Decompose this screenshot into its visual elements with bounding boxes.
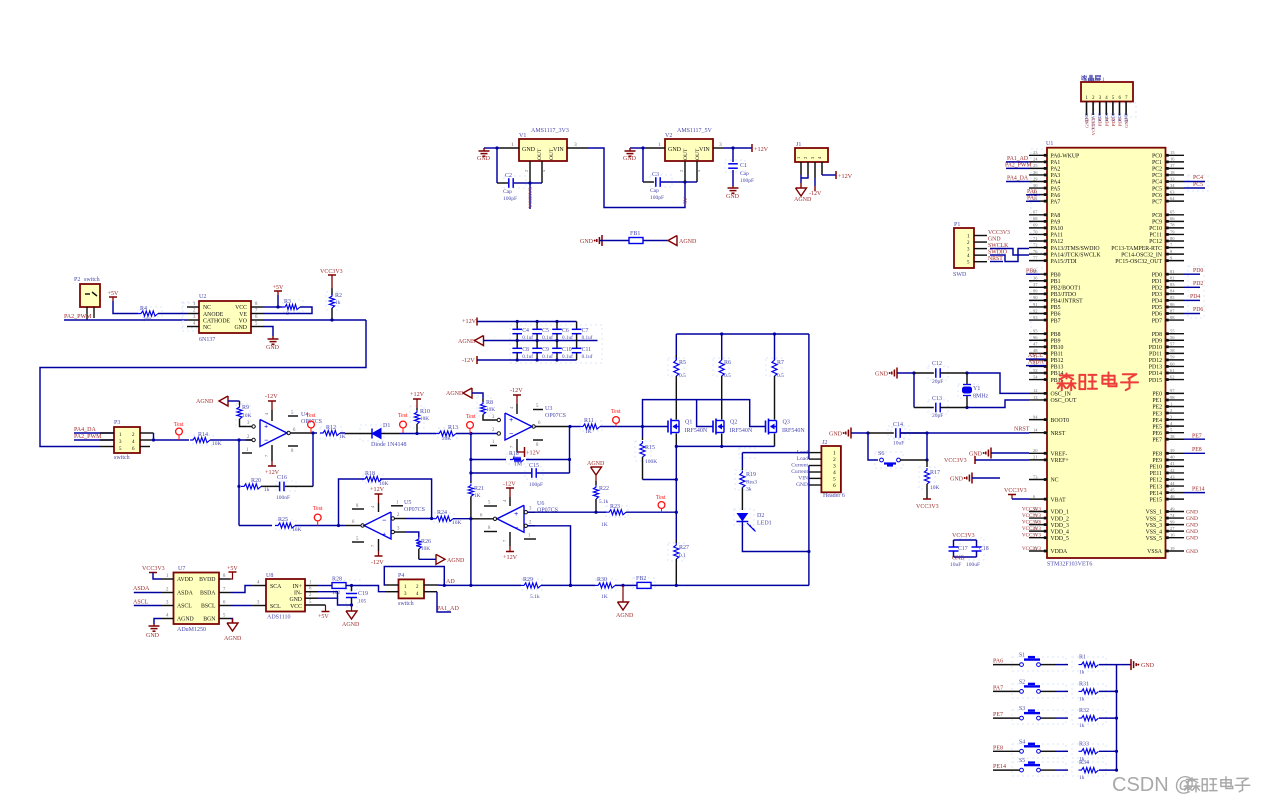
P1 pin 1 stub — [974, 235, 987, 237]
U1 left pin PA7 — [1029, 200, 1047, 202]
svg-text:PA7: PA7 — [993, 685, 1003, 691]
U1 pin VDD_1 — [1029, 511, 1047, 513]
svg-text:C16: C16 — [277, 475, 287, 481]
svg-text:18: 18 — [1170, 170, 1175, 175]
svg-text:PA6: PA6 — [993, 659, 1003, 665]
U3 pin3 stub — [495, 419, 497, 421]
svg-text:2: 2 — [524, 170, 529, 172]
svg-text:95: 95 — [1033, 329, 1038, 334]
svg-text:Y1: Y1 — [973, 386, 980, 392]
digital isolator U7 ADuM1250 — [174, 573, 220, 625]
svg-text:56: 56 — [1170, 335, 1175, 340]
svg-text:PA2_PWM: PA2_PWM — [74, 434, 102, 440]
svg-text:AMS1117_5V: AMS1117_5V — [677, 128, 713, 134]
svg-text:GND: GND — [1085, 117, 1090, 128]
analog ground AGND below R30 — [622, 585, 624, 602]
svg-text:13: 13 — [1033, 395, 1038, 400]
svg-text:60: 60 — [1170, 361, 1175, 366]
svg-text:PE7: PE7 — [1152, 437, 1162, 443]
svg-text:2: 2 — [833, 457, 836, 463]
wire R3 to VE pin 7 — [263, 307, 312, 314]
svg-text:AGND: AGND — [616, 613, 634, 619]
svg-text:PA1_AD: PA1_AD — [1007, 156, 1028, 162]
power -12V at cap bank — [476, 356, 478, 364]
microcontroller U1 STM32F103VET6 — [1047, 148, 1166, 558]
svg-text:5.1k: 5.1k — [530, 594, 540, 600]
svg-text:PE14: PE14 — [1192, 487, 1205, 493]
svg-text:P3: P3 — [114, 420, 120, 426]
op-amp U3 OP07CS — [505, 413, 532, 440]
svg-text:Current: Current — [791, 469, 808, 475]
ferrite bead FB2 — [637, 582, 651, 588]
P4 right stubs — [424, 584, 437, 586]
svg-text:GND: GND — [796, 482, 808, 488]
svg-text:PD4: PD4 — [1190, 294, 1200, 300]
svg-text:PB8: PB8 — [1051, 332, 1061, 338]
selection marks — [193, 435, 213, 445]
svg-text:89: 89 — [1033, 289, 1038, 294]
U1 right pin PE11 — [1166, 472, 1185, 474]
svg-text:PE11: PE11 — [1150, 471, 1162, 477]
svg-text:OSC_IN: OSC_IN — [1051, 392, 1072, 398]
svg-text:CATHODE: CATHODE — [203, 319, 231, 325]
resistor R9 10K — [239, 401, 241, 405]
U5 pin3 wire to R26 — [405, 532, 419, 537]
wire source rail — [676, 445, 774, 447]
svg-text:R18: R18 — [365, 471, 375, 477]
U4 pin3 noninverting stub — [246, 426, 252, 428]
svg-text:R14: R14 — [198, 432, 208, 438]
capacitor C14 10uF — [868, 432, 894, 434]
U1 left pin PB13 — [1029, 365, 1047, 367]
svg-text:R23: R23 — [610, 504, 620, 510]
test point before R14 — [176, 428, 183, 435]
wire U7 BSCL to U8 SCL — [231, 605, 253, 607]
svg-text:VCC3V3: VCC3V3 — [1022, 521, 1041, 526]
svg-text:U6: U6 — [537, 501, 544, 507]
svg-text:PA14/JTCK/SWCLK: PA14/JTCK/SWCLK — [1051, 252, 1102, 258]
push button S5 — [993, 769, 1020, 771]
U1 pin VSS_5 — [1166, 537, 1185, 539]
svg-text:AGND: AGND — [587, 461, 605, 467]
wire P4 pin4 to PA1_AD label — [437, 592, 451, 612]
U7 pin4 to GND — [154, 619, 162, 625]
wire common column to GND — [1116, 665, 1118, 771]
svg-text:GND: GND — [146, 633, 160, 639]
wire crystal to OSC_OUT — [967, 400, 1029, 408]
svg-text:R3: R3 — [284, 299, 291, 305]
U1 left pin PB6 — [1029, 313, 1047, 315]
svg-text:P4: P4 — [398, 573, 404, 579]
svg-text:PA9: PA9 — [1051, 220, 1061, 226]
capacitor C12 20pF — [914, 372, 934, 374]
svg-text:PD13: PD13 — [1149, 365, 1162, 371]
wire main node to R25 — [239, 525, 272, 527]
resistor R26 10K — [416, 537, 421, 549]
svg-text:GND: GND — [1186, 529, 1198, 535]
svg-text:PD2: PD2 — [1193, 281, 1203, 287]
connector J2 Header 6 — [821, 446, 841, 492]
svg-text:-12V: -12V — [462, 357, 475, 364]
svg-text:PB6: PB6 — [1051, 312, 1061, 318]
svg-text:10uF: 10uF — [893, 441, 904, 447]
svg-text:+12V: +12V — [503, 554, 518, 561]
svg-text:PB4/JNTRST: PB4/JNTRST — [1051, 299, 1084, 305]
J1 pins 1,2 wire to AGND — [800, 175, 802, 183]
wire R28 to P4 pin3 — [352, 586, 386, 592]
transistor Q1 IRF540N — [667, 421, 669, 433]
power -12V at U5 bottom — [378, 539, 380, 551]
svg-text:J2: J2 — [822, 440, 827, 446]
svg-text:1k: 1k — [1079, 670, 1085, 676]
U1 left pin PB14 — [1029, 372, 1047, 374]
svg-text:R28: R28 — [332, 577, 342, 583]
U3 output pin6 — [532, 425, 535, 428]
svg-text:R8: R8 — [486, 400, 493, 406]
V2 AMS1117-5V regulator — [665, 139, 713, 161]
resistor R7 0.5 — [774, 334, 776, 360]
J1 pin4 wire to +12V — [822, 174, 836, 176]
U1 pin VSS_4 — [1166, 530, 1185, 532]
svg-text:54: 54 — [1033, 374, 1038, 379]
wire NRST net — [900, 432, 1029, 434]
svg-text:OUT: OUT — [549, 148, 555, 160]
U1 left pin PB12 — [1029, 359, 1047, 361]
svg-text:0.1uf: 0.1uf — [542, 334, 553, 341]
svg-text:OP07CS: OP07CS — [301, 419, 322, 425]
svg-text:PE3: PE3 — [1152, 411, 1162, 417]
svg-text:BSCL: BSCL — [201, 604, 216, 610]
U1 left pin PA4 — [1029, 181, 1047, 183]
svg-text:R5: R5 — [679, 360, 686, 366]
capacitor C1 100pF — [732, 148, 734, 162]
wire +12V rail down to J2 — [808, 334, 810, 453]
resistor R17 10K pullup to VCC3V3 — [926, 460, 928, 467]
svg-text:100uF: 100uF — [966, 562, 980, 568]
U1 pin VREF+ — [1029, 459, 1047, 461]
svg-text:R33: R33 — [1079, 741, 1089, 747]
svg-text:VCC3V3: VCC3V3 — [952, 533, 975, 539]
svg-text:PD9: PD9 — [1152, 338, 1162, 344]
power +12V at U6 bottom — [509, 532, 511, 546]
svg-text:34: 34 — [1170, 183, 1175, 188]
svg-text:10K: 10K — [292, 527, 302, 533]
U4 pin2 inverting stub — [246, 439, 252, 441]
U5 pin5 stub — [352, 541, 364, 543]
diode D1 1N4148 — [345, 433, 372, 435]
J1 pin stubs — [800, 162, 802, 175]
U1 pin VDDA — [1029, 550, 1047, 552]
svg-text:VO: VO — [239, 319, 247, 325]
U1 right pin PD9 — [1166, 339, 1185, 341]
svg-text:49: 49 — [1170, 506, 1175, 511]
wire V1 VIN to +5V rail — [588, 148, 685, 208]
svg-text:1: 1 — [511, 142, 514, 148]
svg-text:PB5: PB5 — [1051, 305, 1061, 311]
svg-text:ASDA: ASDA — [1028, 360, 1045, 366]
svg-text:1K: 1K — [601, 522, 608, 528]
svg-text:1K: 1K — [585, 429, 592, 435]
U1 right pin PE5 — [1166, 425, 1185, 427]
U3 pin1 stub — [490, 445, 497, 447]
svg-text:87: 87 — [1170, 308, 1175, 313]
transistor Q2 IRF540N — [712, 421, 714, 433]
svg-text:VCC3V3: VCC3V3 — [1004, 488, 1027, 494]
U1 left pin PB0 — [1029, 273, 1047, 275]
U1 right pin PD4 — [1166, 299, 1185, 301]
svg-text:1K: 1K — [339, 434, 346, 440]
svg-text:91: 91 — [1033, 302, 1038, 307]
U1 left pin PB2/BOOT1 — [1029, 286, 1047, 288]
svg-text:GND: GND — [477, 156, 491, 162]
U1 left pin PA14/JTCK/SWCLK — [1029, 253, 1047, 255]
U6 pin3 stub — [524, 511, 527, 514]
resistor R30 1K — [595, 583, 615, 588]
svg-text:53: 53 — [1033, 368, 1038, 373]
svg-text:J1: J1 — [796, 142, 801, 148]
resistor R12 1K — [320, 430, 340, 435]
LCD pin 3 stub — [1099, 102, 1101, 116]
svg-text:R31: R31 — [1079, 681, 1089, 687]
svg-text:AGND: AGND — [224, 636, 242, 642]
U1 right pin PC9 — [1166, 220, 1185, 222]
svg-text:83: 83 — [1170, 282, 1175, 287]
svg-text:PB9: PB9 — [1051, 338, 1061, 344]
svg-text:14: 14 — [1033, 428, 1038, 433]
svg-text:BGN: BGN — [203, 617, 216, 623]
svg-text:ANODE: ANODE — [203, 312, 224, 318]
svg-text:VCC3V3: VCC3V3 — [988, 230, 1010, 236]
J2 pin 5 VIN — [809, 477, 822, 479]
svg-text:0.1uf: 0.1uf — [562, 334, 573, 341]
svg-text:PA8: PA8 — [1051, 213, 1061, 219]
svg-text:SCA: SCA — [270, 584, 282, 590]
resistor R5 0.5 — [675, 334, 677, 360]
svg-text:100pF: 100pF — [529, 482, 543, 488]
svg-text:+12V: +12V — [526, 450, 541, 457]
svg-text:C8: C8 — [522, 347, 529, 353]
svg-text:0.1uf: 0.1uf — [582, 353, 593, 360]
svg-text:OUT: OUT — [695, 148, 701, 160]
U1 right pin PD2 — [1166, 286, 1185, 288]
U7 right pin 6 — [219, 605, 231, 607]
svg-text:CSDN @: CSDN @ — [1112, 774, 1195, 796]
svg-text:IN-: IN- — [294, 591, 302, 597]
svg-text:1K: 1K — [474, 493, 481, 499]
svg-text:NC: NC — [1051, 478, 1059, 484]
svg-text:2: 2 — [679, 170, 684, 172]
svg-text:AGND: AGND — [342, 622, 360, 628]
wire C16 up to U4 output — [312, 433, 314, 486]
svg-text:84: 84 — [1170, 289, 1175, 294]
svg-text:R26: R26 — [421, 539, 431, 545]
svg-text:10K: 10K — [420, 416, 429, 422]
svg-text:Test: Test — [313, 506, 323, 512]
push button S3 — [993, 717, 1020, 719]
connector LCD 液晶屏 — [1081, 75, 1084, 78]
svg-text:+: + — [264, 422, 268, 431]
U1 right pin PC5 — [1166, 187, 1185, 189]
svg-text:59: 59 — [1170, 355, 1175, 360]
U1 left pin PB10 — [1029, 346, 1047, 348]
svg-text:1k: 1k — [335, 300, 341, 306]
svg-text:58: 58 — [1170, 348, 1175, 353]
resistor R32 1k — [1079, 716, 1099, 721]
svg-text:79: 79 — [1170, 229, 1175, 234]
svg-text:39: 39 — [1170, 448, 1175, 453]
svg-text:30: 30 — [1033, 183, 1038, 188]
connector P1 SWD — [954, 228, 974, 268]
svg-text:GND: GND — [580, 239, 594, 245]
U1 right pin PC13-TAMPER-RTC — [1166, 247, 1185, 249]
LCD pin 2 stub — [1092, 102, 1094, 116]
LCD pin 6 stub — [1119, 102, 1121, 116]
push button S1 — [993, 664, 1020, 666]
svg-text:AGND: AGND — [196, 399, 214, 405]
wire P3 to R14 — [154, 439, 190, 441]
svg-text:PA6: PA6 — [1051, 193, 1061, 199]
U1 right pin PC6 — [1166, 194, 1185, 196]
capacitor C19 105 — [351, 586, 353, 592]
svg-text:Test: Test — [466, 414, 476, 420]
svg-text:10K: 10K — [242, 413, 252, 419]
svg-text:PC8: PC8 — [1152, 213, 1162, 219]
svg-text:GND: GND — [829, 432, 843, 438]
resistor R8 10K — [482, 399, 484, 402]
svg-text:PD12: PD12 — [1149, 358, 1162, 364]
svg-text:PD6: PD6 — [1193, 307, 1203, 313]
capacitor C8 0.1uf — [516, 341, 518, 349]
svg-text:85: 85 — [1170, 295, 1175, 300]
svg-text:PD8: PD8 — [1152, 332, 1162, 338]
U1 pin VREF- — [1029, 452, 1047, 454]
svg-text:C12: C12 — [932, 361, 942, 367]
U1 right pin PD5 — [1166, 306, 1185, 308]
svg-text:NC: NC — [203, 305, 211, 311]
svg-text:PA7: PA7 — [1051, 199, 1061, 205]
V1 pin 1 wire to GND — [499, 147, 519, 149]
svg-text:Current: Current — [791, 463, 808, 469]
net VCC3V3 vertical wire below V1 — [529, 183, 531, 209]
svg-text:PC0: PC0 — [1152, 154, 1162, 160]
svg-text:10K: 10K — [930, 485, 940, 491]
svg-text:-12V: -12V — [371, 559, 384, 566]
svg-text:PC10: PC10 — [1149, 226, 1162, 232]
ground GND at V1 — [483, 148, 485, 151]
svg-text:Header 6: Header 6 — [823, 493, 845, 499]
svg-text:C19: C19 — [358, 591, 368, 597]
svg-text:GND: GND — [522, 147, 536, 153]
svg-text:81: 81 — [1170, 269, 1175, 274]
svg-text:+12V: +12V — [370, 486, 385, 493]
svg-text:43: 43 — [1170, 474, 1175, 479]
svg-text:100K: 100K — [645, 459, 657, 465]
capacitor C2 100pF — [496, 148, 498, 183]
transistor Q3 IRF540N — [765, 421, 767, 433]
svg-text:+5V: +5V — [683, 197, 689, 207]
wire U6 pin3 to R22 node — [528, 511, 597, 513]
U7 right pin 5 — [219, 618, 231, 620]
svg-text:64: 64 — [1170, 196, 1175, 201]
svg-text:R30: R30 — [597, 577, 607, 583]
U1 right pin PD0 — [1166, 273, 1185, 275]
svg-text:P1: P1 — [954, 222, 960, 228]
power +5V near P2 — [109, 296, 117, 298]
resistor R14 10K — [190, 437, 210, 442]
push button S6 — [868, 433, 878, 460]
svg-text:U5: U5 — [404, 500, 411, 506]
U1 right pin PE12 — [1166, 479, 1185, 481]
svg-text:25: 25 — [1033, 163, 1038, 168]
svg-text:Q3: Q3 — [783, 420, 790, 426]
U6 pin1 stub — [524, 538, 536, 540]
resistor R28 — [318, 585, 332, 587]
svg-text:VDD_4: VDD_4 — [1051, 529, 1069, 535]
optocoupler U2 6N137 — [183, 303, 207, 331]
wire J2 pins 1,2 to rail and R19 — [808, 453, 810, 460]
svg-text:VCC3V3: VCC3V3 — [1022, 527, 1041, 532]
svg-text:VSS_1: VSS_1 — [1146, 510, 1163, 516]
svg-text:2: 2 — [803, 157, 808, 159]
svg-text:10K: 10K — [486, 407, 495, 413]
wire FB2 row to J2 column — [676, 584, 809, 586]
feedback resistor R16 1M — [470, 434, 472, 460]
svg-text:PE0: PE0 — [1152, 392, 1162, 398]
U5 output pin6 — [361, 524, 364, 527]
svg-text:PA15/JTDI: PA15/JTDI — [1051, 259, 1077, 265]
svg-text:GND: GND — [668, 147, 682, 153]
svg-text:GND: GND — [1141, 663, 1155, 669]
svg-text:98: 98 — [1170, 395, 1175, 400]
node junction feedback column — [469, 432, 472, 435]
svg-text:Test: Test — [174, 422, 184, 428]
svg-text:FB1: FB1 — [630, 231, 640, 237]
svg-text:PC9: PC9 — [1152, 220, 1162, 226]
U6 pin5 stub — [484, 505, 497, 507]
svg-text:PD15: PD15 — [1149, 378, 1162, 384]
svg-text:PD6: PD6 — [1098, 117, 1103, 126]
resistor R33 1k — [1079, 749, 1099, 754]
svg-text:PC6: PC6 — [1152, 193, 1162, 199]
U1 right pin PD3 — [1166, 293, 1185, 295]
svg-text:GND: GND — [1186, 510, 1198, 516]
svg-text:69: 69 — [1033, 223, 1038, 228]
U7 left pin 1 — [162, 578, 174, 580]
svg-text:C5: C5 — [542, 328, 549, 334]
V1 pin 3 VIN wire — [567, 147, 588, 149]
svg-text:STM32F103VET6: STM32F103VET6 — [1047, 562, 1092, 568]
svg-text:−: − — [382, 516, 386, 525]
svg-text:100pF: 100pF — [650, 195, 664, 201]
svg-text:Cap: Cap — [650, 188, 659, 194]
svg-text:15: 15 — [1170, 150, 1175, 155]
resistor R10 10K — [416, 408, 418, 410]
svg-text:R2: R2 — [335, 293, 342, 299]
U4 output pin6 — [287, 431, 290, 434]
connector P3 switch — [114, 427, 140, 453]
connector P4 switch — [399, 579, 425, 598]
svg-text:VCC3V3: VCC3V3 — [1022, 514, 1041, 519]
U1 right pin PD14 — [1166, 372, 1185, 374]
svg-text:86: 86 — [1170, 302, 1175, 307]
U1 right pin PC1 — [1166, 161, 1185, 163]
ground GND at U2 — [272, 336, 274, 339]
test point at U4 output — [308, 421, 315, 428]
svg-text:0.1: 0.1 — [679, 553, 686, 559]
U1 pin NRST — [1029, 432, 1047, 434]
analog ground AGND at J1 — [796, 188, 807, 196]
U1 right pin PD13 — [1166, 365, 1185, 367]
